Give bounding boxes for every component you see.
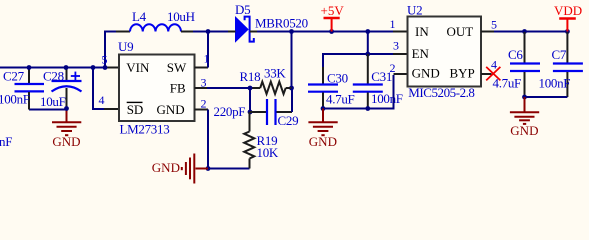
svg-text:C29: C29 bbox=[278, 113, 299, 128]
svg-text:GND: GND bbox=[152, 160, 180, 175]
svg-text:100nF: 100nF bbox=[371, 91, 403, 106]
junction C28 top bbox=[64, 65, 69, 70]
wire L4 right pin bbox=[181, 31, 194, 33]
svg-text:C6: C6 bbox=[508, 47, 523, 62]
svg-text:220pF: 220pF bbox=[214, 104, 246, 119]
svg-text:L4: L4 bbox=[132, 9, 147, 24]
wire C6-C7 ground rail bbox=[525, 96, 568, 98]
power port +5V bbox=[321, 3, 345, 32]
ground symbol under C6 bbox=[510, 97, 539, 124]
svg-text:C30: C30 bbox=[327, 71, 348, 86]
svg-text:SW: SW bbox=[167, 60, 187, 75]
svg-text:R18: R18 bbox=[240, 69, 261, 84]
svg-text:10uF: 10uF bbox=[40, 94, 66, 109]
svg-text:VIN: VIN bbox=[126, 60, 150, 75]
svg-text:4: 4 bbox=[99, 93, 105, 107]
diode D5 schottky bbox=[228, 17, 258, 42]
wire U2 pin 1 IN stub bbox=[393, 31, 408, 33]
svg-text:4.7uF: 4.7uF bbox=[493, 76, 522, 91]
wire SD pin 4 net bbox=[93, 68, 105, 110]
wire L4 to D5 anode bbox=[193, 31, 229, 33]
junction C6 top bbox=[522, 29, 527, 34]
svg-text:3: 3 bbox=[393, 39, 399, 53]
svg-text:100nF: 100nF bbox=[539, 76, 571, 91]
svg-text:GND: GND bbox=[309, 134, 337, 149]
svg-text:1: 1 bbox=[390, 17, 396, 31]
junction C31-EN branch bbox=[365, 29, 370, 34]
wire U9 pin 5 stub bbox=[104, 67, 119, 69]
svg-text:4.7uF: 4.7uF bbox=[326, 92, 355, 107]
capacitor C28 polarized bbox=[52, 68, 82, 109]
ground symbol under C30 bbox=[308, 109, 337, 136]
plus polarity mark of C28 bbox=[71, 72, 80, 81]
svg-text:SD: SD bbox=[127, 102, 144, 117]
svg-text:2: 2 bbox=[201, 97, 207, 111]
junction R18 right end bbox=[289, 86, 294, 91]
junction C30 bottom ground bbox=[321, 106, 326, 111]
IC U9 body LM27313 bbox=[119, 55, 195, 122]
svg-text:MBR0520: MBR0520 bbox=[255, 16, 308, 31]
wire U2 pin 5 OUT stub bbox=[481, 31, 495, 33]
svg-text:1: 1 bbox=[204, 52, 210, 66]
junction ground node at U9 bbox=[206, 166, 211, 171]
junction C27 top bbox=[27, 65, 32, 70]
resistor R18 bbox=[250, 82, 292, 94]
svg-text:LM27313: LM27313 bbox=[120, 122, 170, 137]
resistor R19 bbox=[244, 112, 254, 169]
wire U9 pin 4 stub bbox=[104, 108, 119, 110]
svg-text:U2: U2 bbox=[407, 3, 422, 18]
capacitor C7 bbox=[553, 32, 583, 97]
junction FB node bbox=[248, 86, 253, 91]
svg-text:4: 4 bbox=[491, 58, 497, 72]
junction pin4 branch bbox=[91, 65, 96, 70]
junction R18 branch bbox=[289, 29, 294, 34]
svg-text:10uH: 10uH bbox=[167, 9, 195, 24]
svg-text:EN: EN bbox=[412, 46, 430, 61]
svg-text:OUT: OUT bbox=[447, 24, 474, 39]
pin name SD with overbar bbox=[127, 102, 144, 117]
junction C7 top at VDD bbox=[565, 29, 570, 34]
power port VDD bbox=[554, 3, 582, 32]
capacitor C27 bbox=[15, 68, 45, 110]
svg-text:C7: C7 bbox=[552, 47, 567, 62]
svg-text:FB: FB bbox=[170, 81, 186, 96]
capacitor C31 bbox=[353, 54, 383, 109]
wire C29 to R18 right node bbox=[291, 88, 293, 112]
svg-text:D5: D5 bbox=[235, 2, 250, 17]
svg-text:33K: 33K bbox=[264, 66, 286, 81]
wire EN riser from rail bbox=[367, 32, 369, 55]
capacitor C30 bbox=[308, 53, 338, 109]
wire R18 riser to +5V rail bbox=[291, 32, 293, 89]
wire VDD output rail bbox=[494, 31, 567, 33]
svg-text:5: 5 bbox=[102, 53, 108, 67]
no-ERC cross on BYP pin bbox=[486, 67, 500, 81]
svg-text:5: 5 bbox=[491, 18, 497, 32]
inductor L4 bbox=[130, 24, 181, 31]
IC U2 body MIC5205 bbox=[408, 17, 482, 87]
svg-text:+5V: +5V bbox=[321, 3, 345, 18]
wire FB net bbox=[207, 87, 250, 89]
wire C27-C28 ground link bbox=[29, 109, 67, 111]
wire middle ground rail up to U2 pin 2 bbox=[323, 75, 394, 109]
svg-text:VDD: VDD bbox=[554, 3, 582, 18]
svg-text:GND: GND bbox=[157, 102, 185, 117]
svg-text:GND: GND bbox=[52, 134, 80, 149]
junction C6 bottom ground bbox=[522, 95, 527, 100]
wire U9 pin 3 FB stub bbox=[195, 87, 209, 89]
svg-text:C28: C28 bbox=[43, 69, 64, 84]
wire U9 pin 2 GND stub bbox=[195, 109, 209, 111]
wire inductor riser bbox=[105, 32, 117, 68]
wire U9 pin 1 SW stub bbox=[195, 67, 209, 69]
junction +5V port bbox=[329, 29, 334, 34]
ground symbol sideways at U9 bbox=[182, 154, 208, 184]
junction EN tee bbox=[365, 52, 370, 57]
svg-text:GND: GND bbox=[412, 65, 440, 80]
svg-text:BYP: BYP bbox=[450, 65, 475, 80]
junction divider tap bbox=[248, 110, 253, 115]
svg-text:U9: U9 bbox=[118, 39, 133, 54]
svg-text:100nF: 100nF bbox=[0, 92, 30, 107]
svg-text:MIC5205-2.8: MIC5205-2.8 bbox=[408, 85, 474, 100]
svg-text:2: 2 bbox=[390, 61, 396, 75]
svg-text:3: 3 bbox=[201, 76, 207, 90]
junction SW node at inductor output bbox=[206, 29, 211, 34]
svg-text:GND: GND bbox=[510, 123, 538, 138]
wire U2 pin 4 BYP stub bbox=[481, 73, 492, 75]
wire U2 pin 3 EN stub bbox=[393, 53, 408, 55]
junction C28 bottom ground bbox=[64, 106, 69, 111]
svg-text:nF: nF bbox=[0, 134, 12, 149]
wire SW riser to inductor node bbox=[207, 32, 209, 68]
junction C31 bottom ground bbox=[365, 106, 370, 111]
junction inductor branch bbox=[103, 65, 108, 70]
svg-text:IN: IN bbox=[415, 24, 429, 39]
wire U2 pin 2 GND stub bbox=[394, 73, 408, 75]
wire FB divider column bbox=[249, 88, 251, 112]
svg-text:10K: 10K bbox=[257, 145, 279, 160]
capacitor C6 bbox=[510, 32, 540, 97]
wire EN net to C30 bbox=[323, 53, 394, 55]
wire VIN input rail from left edge bbox=[0, 67, 105, 69]
svg-text:C27: C27 bbox=[3, 69, 25, 84]
wire L4 left pin bbox=[116, 31, 130, 33]
capacitor C29 bbox=[250, 99, 292, 125]
wire U9 ground drop to R19 bottom bbox=[208, 110, 250, 169]
wire +5V rail bbox=[257, 31, 394, 33]
ground symbol under C28 bbox=[52, 109, 81, 136]
